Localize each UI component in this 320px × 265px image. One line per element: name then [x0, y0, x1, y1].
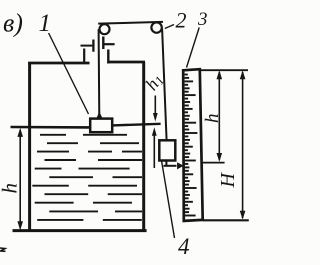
water surface left with datum extension [11, 126, 91, 129]
weight 4 body [159, 140, 175, 160]
svg-text:4: 4 [178, 234, 190, 259]
tank right wall [142, 62, 145, 232]
belt top line [98, 22, 163, 24]
weight pointer arrow [164, 162, 184, 169]
dimension arrow h1 lower [152, 127, 157, 168]
float block 1 [90, 119, 112, 133]
leader line 3 [187, 28, 200, 68]
dimension arrow h left [17, 128, 23, 230]
water hatching dashes [32, 135, 142, 220]
contact left bracket [83, 49, 85, 64]
tank bottom [13, 229, 147, 232]
string right segment down to weight [162, 29, 167, 141]
contact right plate [102, 37, 104, 50]
dimension arrow h right [217, 70, 223, 162]
dimension H bottom datum [203, 219, 249, 221]
dimension arrow H [240, 70, 246, 220]
water surface right with datum extension [112, 124, 160, 126]
left pulley [100, 24, 110, 34]
weight pointer stem [165, 161, 167, 166]
svg-text:H: H [217, 172, 239, 189]
right pulley [151, 22, 161, 32]
contact right lead [104, 43, 114, 45]
svg-text:3: 3 [197, 9, 208, 30]
string left segment down to float [98, 29, 101, 118]
tank rim left [28, 62, 89, 65]
contact left plate [92, 40, 94, 52]
contact left lead [81, 45, 93, 47]
tank rim right [108, 61, 145, 64]
tank left wall [28, 62, 31, 232]
svg-text:2: 2 [176, 8, 187, 33]
svg-text:h: h [0, 183, 22, 194]
dimension h bottom datum [203, 162, 225, 164]
ruler ticks [185, 75, 198, 216]
dimension arrow h1 upper [153, 96, 158, 122]
contact right bracket [107, 50, 109, 64]
svg-text:h: h [202, 114, 223, 124]
ruler body [183, 69, 203, 221]
dimension top datum line [201, 69, 248, 71]
leader line 1 [49, 33, 89, 114]
leader line 2 [165, 25, 174, 29]
scan artifact bottom left [0, 248, 6, 251]
svg-text:в): в) [3, 9, 23, 38]
string knot at float top [96, 112, 102, 119]
leader line 4 [162, 161, 175, 239]
